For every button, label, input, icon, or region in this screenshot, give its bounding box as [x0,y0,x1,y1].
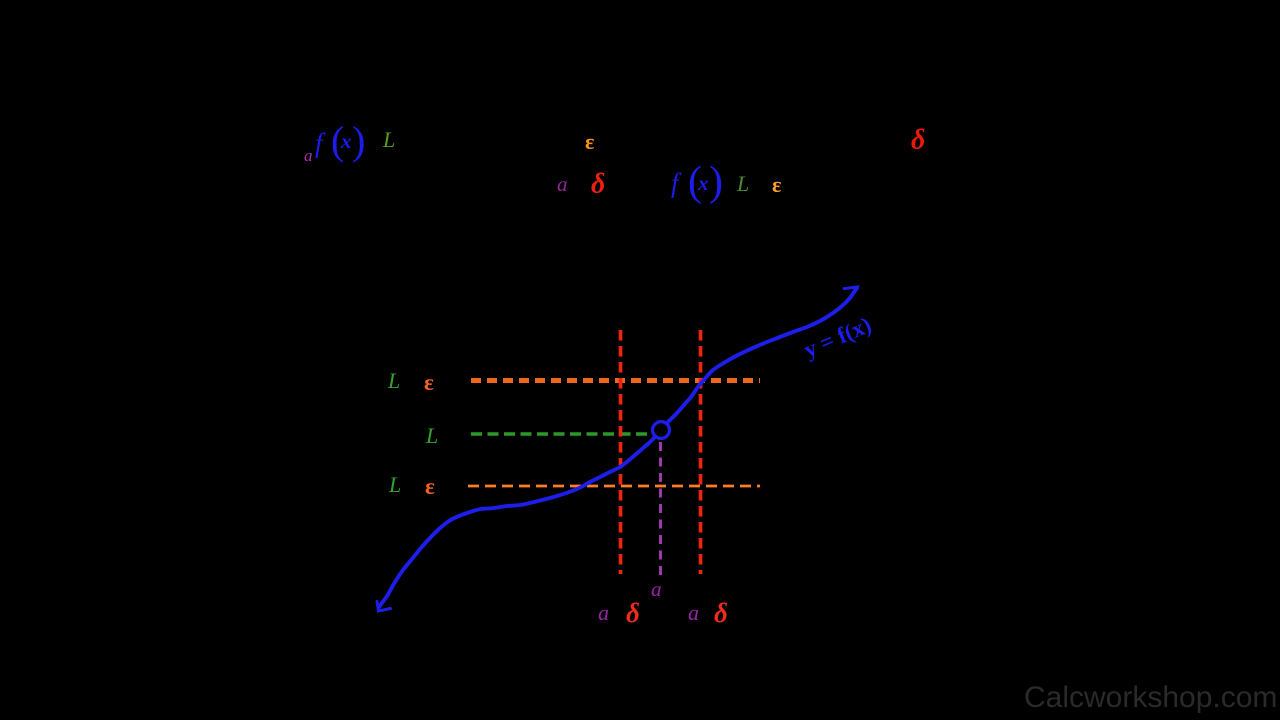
bottom-left arrowhead [377,602,391,612]
dashed vertical line a-delta (red) [619,330,623,574]
dashed horizontal line L+eps (orange) [471,378,760,383]
svg-text:y = f(x): y = f(x) [800,312,875,363]
svg-text:ε: ε [772,172,781,197]
svg-text:L: L [382,127,395,152]
svg-text:L: L [388,472,401,497]
svg-text:f: f [671,168,682,198]
svg-text:Calcworkshop.com: Calcworkshop.com [1024,681,1277,714]
dashed vertical line a (purple) [659,442,662,577]
svg-text:a: a [688,600,699,625]
svg-text:δ: δ [714,598,728,628]
svg-text:): ) [709,159,723,205]
svg-text:x: x [340,129,352,153]
svg-text:L: L [387,368,400,393]
svg-text:ε: ε [585,129,594,154]
svg-text:): ) [352,118,365,163]
svg-text:f: f [315,128,326,158]
svg-text:a: a [598,600,609,625]
dashed horizontal line L-eps (orange) [468,485,760,488]
svg-text:a: a [651,577,662,601]
label y = f(x) rotated [800,312,875,363]
svg-text:L: L [736,171,749,196]
dashed horizontal line L (green) [471,432,650,436]
top-right arrowhead [844,287,857,298]
svg-text:ε: ε [424,370,434,395]
open circle at (a,L) [653,422,670,439]
svg-text:L: L [425,423,438,448]
svg-text:ε: ε [425,474,435,499]
svg-text:δ: δ [591,169,605,200]
svg-text:δ: δ [911,125,925,156]
svg-text:x: x [697,171,709,195]
svg-text:a: a [304,146,313,165]
svg-text:a: a [557,172,568,196]
svg-text:δ: δ [626,598,640,628]
dashed vertical line a+delta (red) [699,330,703,574]
blue curve y=f(x) [379,288,857,607]
